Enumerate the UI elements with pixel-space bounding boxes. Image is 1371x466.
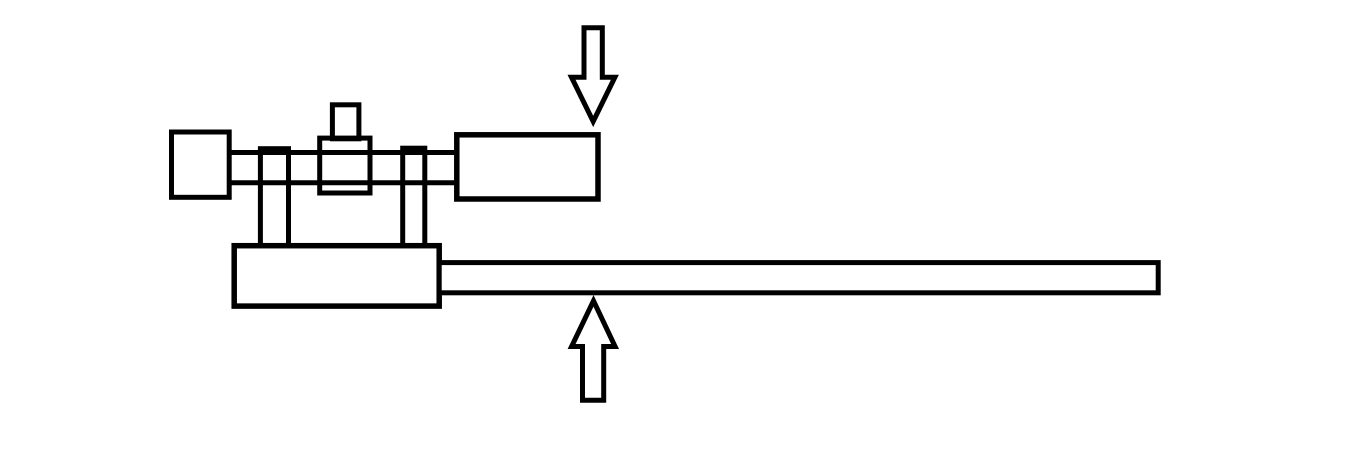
scope tube top line <box>229 150 457 155</box>
barrel bar <box>439 263 1158 293</box>
front ring mount leg <box>260 149 288 246</box>
scope tube bottom line <box>229 180 457 185</box>
eyepiece box <box>172 132 230 197</box>
rear ring mount leg <box>403 148 425 246</box>
down force arrow <box>572 28 615 122</box>
turret knob <box>332 105 359 139</box>
receiver base box <box>234 246 439 306</box>
up force arrow <box>572 301 616 400</box>
turret saddle block <box>320 138 370 193</box>
objective bell box <box>457 135 598 199</box>
